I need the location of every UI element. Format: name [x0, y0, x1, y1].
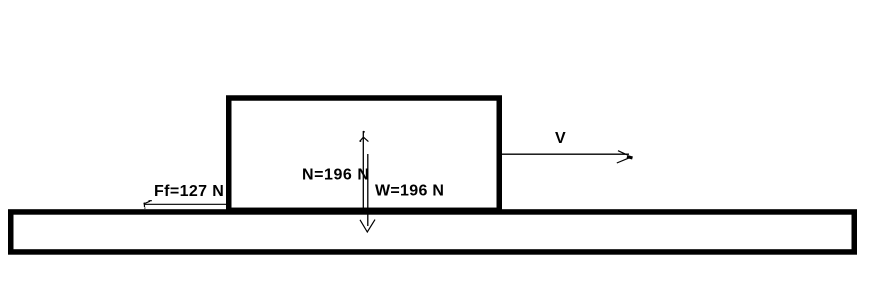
svg-text:Ff=127 N: Ff=127 N — [154, 183, 224, 200]
svg-text:N=196 N: N=196 N — [302, 167, 369, 184]
svg-text:W=196 N: W=196 N — [375, 183, 444, 200]
svg-text:V: V — [555, 130, 566, 147]
